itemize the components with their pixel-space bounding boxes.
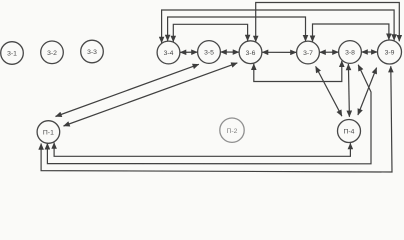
svg-text:П-1: П-1 bbox=[43, 130, 54, 137]
wire З-4 - З-5 bbox=[180, 51, 197, 53]
node П-1 bbox=[37, 121, 60, 144]
wire З-8 - П-4 vertical bbox=[348, 64, 349, 117]
wire З-8 - З-9 bbox=[362, 51, 378, 53]
wire h1 top route З-6 to З-9 bbox=[256, 3, 400, 42]
svg-text:3-4: 3-4 bbox=[164, 50, 174, 57]
node З-4 bbox=[157, 41, 180, 64]
node З-7 bbox=[297, 41, 320, 64]
svg-text:3-8: 3-8 bbox=[345, 50, 355, 57]
wire З-7 - З-8 bbox=[320, 51, 339, 53]
svg-text:3-5: 3-5 bbox=[204, 50, 214, 57]
node З-2 bbox=[41, 41, 64, 64]
node З-5 bbox=[198, 41, 221, 64]
svg-text:П-4: П-4 bbox=[344, 129, 355, 136]
node П-4 bbox=[338, 120, 361, 143]
node З-6 bbox=[239, 41, 262, 64]
wire П-1 - З-6 diagonal bbox=[64, 63, 238, 126]
wire bottom route П-1 to З-8 bbox=[47, 65, 371, 164]
wire h4 top route З-4 to З-6 bbox=[173, 24, 247, 42]
node З-1 bbox=[1, 42, 24, 65]
node З-3 bbox=[81, 40, 104, 63]
svg-text:3-9: 3-9 bbox=[385, 50, 395, 57]
wire З-7 - П-4 diagonal bbox=[316, 66, 342, 116]
svg-text:П-2: П-2 bbox=[227, 128, 238, 135]
wire З-6 - З-7 bbox=[262, 51, 296, 53]
svg-text:3-3: 3-3 bbox=[87, 49, 97, 56]
node З-9 bbox=[378, 40, 402, 64]
node З-8 bbox=[339, 41, 362, 64]
wire bottom route П-1 to П-4 bbox=[54, 143, 350, 157]
svg-text:3-6: 3-6 bbox=[246, 50, 256, 57]
wire h5 top route З-7 to З-9 bbox=[313, 24, 389, 42]
svg-text:3-2: 3-2 bbox=[47, 50, 57, 57]
wire h2 top route З-4 to З-9 bbox=[162, 10, 395, 43]
wire З-9 - П-4 diagonal bbox=[358, 68, 377, 115]
node П-2 bbox=[220, 118, 244, 142]
wire h3 top route З-4 to З-7 bbox=[168, 17, 306, 41]
wire lower route З-6 to З-8 bbox=[254, 61, 342, 82]
wire П-1 - З-5 diagonal bbox=[56, 64, 199, 116]
wire bottom route П-1 to З-9 bbox=[41, 66, 392, 172]
wire З-5 - З-6 bbox=[221, 51, 239, 53]
svg-text:3-1: 3-1 bbox=[7, 51, 17, 58]
svg-text:3-7: 3-7 bbox=[303, 50, 313, 57]
